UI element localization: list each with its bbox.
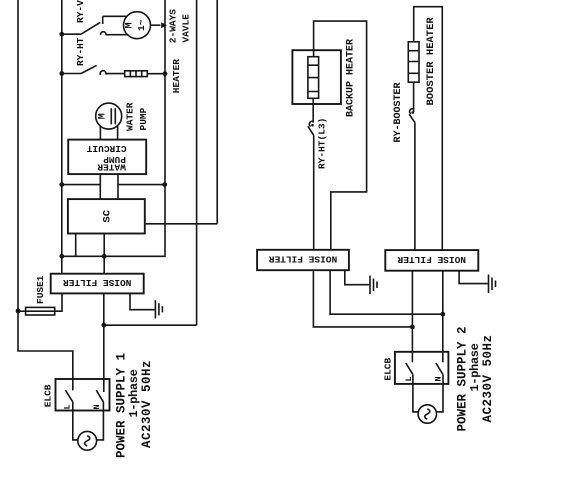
svg-text:AC230V 50Hz: AC230V 50Hz xyxy=(140,360,154,448)
wire rail C xyxy=(216,0,218,224)
noise filter 2 box (backup) xyxy=(257,250,349,270)
svg-text:PUMP: PUMP xyxy=(138,107,149,130)
breaker pole L (1) xyxy=(63,390,78,440)
svg-text:N: N xyxy=(92,404,102,409)
svg-text:M: M xyxy=(125,22,136,28)
node SC top bus tap xyxy=(59,182,64,187)
heater element booster xyxy=(408,42,419,82)
breaker ELCB2 box xyxy=(395,352,449,384)
svg-text:WATER: WATER xyxy=(97,162,126,173)
wire booster heater loop xyxy=(414,7,443,250)
source AC supply 2 xyxy=(418,405,436,423)
svg-text:2-WAYS: 2-WAYS xyxy=(168,9,179,44)
svg-text:RY-HT: RY-HT xyxy=(75,37,86,66)
node N join xyxy=(440,312,445,317)
motor M water pump xyxy=(96,103,122,129)
svg-text:M: M xyxy=(97,113,108,119)
wire SC bottom stub mid to noise filter xyxy=(103,234,105,274)
svg-text:BACKUP HEATER: BACKUP HEATER xyxy=(346,39,357,117)
wire SC right to rail C xyxy=(145,223,217,225)
noise filter 3 box (booster) xyxy=(385,250,478,271)
controller SC box xyxy=(68,199,145,233)
motor M1~ 2-ways valve xyxy=(124,12,151,39)
water pump circuit box xyxy=(68,140,146,175)
breaker ELCB1 box xyxy=(56,379,110,411)
wire backup heater loop xyxy=(314,21,367,250)
wire pump to circuit box xyxy=(100,126,117,140)
wire SC bottom stub left xyxy=(75,234,77,257)
relay contact RY-V2 (SPDT to valve motor) xyxy=(62,16,128,35)
breaker pole N (2) xyxy=(434,363,444,412)
wire rail R1 (neutral return right side of left circuit) xyxy=(62,0,165,256)
wire SC top bus right xyxy=(118,184,165,186)
wire heater to rail xyxy=(147,73,165,75)
node SC top bus right xyxy=(162,182,167,187)
node L join xyxy=(410,325,415,330)
svg-text:RY-BOOSTER: RY-BOOSTER xyxy=(393,82,404,142)
svg-text:L: L xyxy=(404,376,414,381)
svg-text:AC230V 50Hz: AC230V 50Hz xyxy=(481,334,495,422)
svg-text:WATER: WATER xyxy=(125,102,136,131)
breaker pole L (2) xyxy=(404,363,418,412)
heater element backup xyxy=(308,57,319,99)
wire pump circuit to SC right xyxy=(117,174,119,199)
wire noise filter N out to ELCB1 xyxy=(103,293,105,392)
wire rail A (L phase from ELCB1 up left side) xyxy=(18,0,73,390)
svg-text:FUSE1: FUSE1 xyxy=(35,275,46,304)
wire valve motor to rail xyxy=(151,24,161,26)
wire NF3 N out to ELCB2 xyxy=(442,271,444,363)
svg-text:NOISE FILTER: NOISE FILTER xyxy=(63,277,132,288)
svg-text:1~: 1~ xyxy=(136,19,147,31)
wire NF3 L out to ELCB2 xyxy=(411,271,413,363)
wire NF2 L out xyxy=(313,270,412,327)
node valve contact tap xyxy=(59,32,64,37)
node SC bottom bus tap xyxy=(59,254,64,259)
ground noise filter 1 xyxy=(130,293,162,318)
relay contact RY-BOOSTER xyxy=(409,109,415,250)
svg-text:1-phase: 1-phase xyxy=(127,369,141,417)
svg-text:NOISE FILTER: NOISE FILTER xyxy=(269,254,338,265)
backup heater enclosure box xyxy=(292,50,341,104)
svg-text:NOISE FILTER: NOISE FILTER xyxy=(397,254,466,265)
wire NF2 N out xyxy=(330,270,443,314)
svg-text:SC: SC xyxy=(102,209,114,222)
node SC bottom bus mid xyxy=(102,254,107,259)
wire rail B' xyxy=(196,0,198,325)
svg-text:ELCB: ELCB xyxy=(43,384,54,407)
wire SC top bus left xyxy=(62,184,101,186)
svg-text:HEATER: HEATER xyxy=(171,59,182,94)
svg-text:RY-V2: RY-V2 xyxy=(75,0,86,23)
node heater return xyxy=(163,71,168,76)
svg-text:L: L xyxy=(63,404,73,409)
svg-text:BOOSTER HEATER: BOOSTER HEATER xyxy=(425,17,437,106)
source AC supply 1 xyxy=(78,431,97,450)
svg-text:N: N xyxy=(434,376,444,381)
svg-text:ELCB: ELCB xyxy=(382,357,393,380)
wire booster heater to contact xyxy=(413,82,415,112)
connector arrow at rail xyxy=(161,22,167,28)
relay contact RY-HT(L3) xyxy=(308,121,314,250)
svg-text:1-phase: 1-phase xyxy=(468,343,482,391)
fuse FUSE1 xyxy=(18,293,62,315)
noise filter 1 box xyxy=(51,274,144,294)
relay contact RY-HT (to heater) xyxy=(62,65,125,75)
wire N return to rail B' xyxy=(104,324,197,326)
ground noise filter 3 xyxy=(459,271,495,293)
breaker pole N (1) xyxy=(92,390,104,440)
ground noise filter 2 xyxy=(345,270,377,294)
svg-text:CIRCUIT: CIRCUIT xyxy=(86,143,126,154)
heater element R (heater) xyxy=(125,71,148,77)
node fuse junction on rail A xyxy=(16,309,21,314)
node N return tap xyxy=(101,323,106,328)
wire backup heater to contact xyxy=(312,98,314,122)
svg-text:RY-HT(L3): RY-HT(L3) xyxy=(317,118,328,169)
node heater contact tap xyxy=(59,71,64,76)
wire pump circuit to SC left xyxy=(99,174,101,199)
svg-text:VAVLE: VAVLE xyxy=(180,14,191,43)
wire rail B (switched L bus) xyxy=(61,0,63,274)
